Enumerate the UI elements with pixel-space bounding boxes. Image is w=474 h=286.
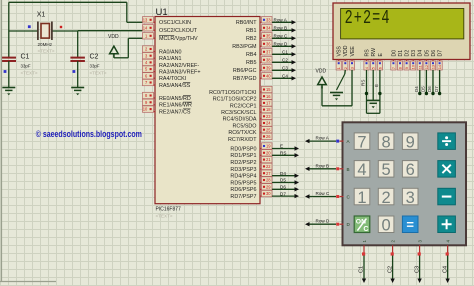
svg-text:RC3/SCK/SCL: RC3/SCK/SCL <box>221 110 256 116</box>
svg-text:2: 2 <box>382 189 391 207</box>
svg-text:RB6/PGC: RB6/PGC <box>233 68 257 74</box>
svg-text:RC7/RX/DT: RC7/RX/DT <box>228 137 257 143</box>
svg-text:D7: D7 <box>280 191 286 196</box>
svg-text:D0: D0 <box>391 50 397 57</box>
svg-text:3: 3 <box>350 67 355 69</box>
svg-text:C2: C2 <box>282 58 288 63</box>
svg-text:RB4: RB4 <box>246 52 257 58</box>
svg-text:RE2/AN7/CS: RE2/AN7/CS <box>159 110 191 116</box>
svg-text:D4: D4 <box>418 50 424 57</box>
svg-text:Row B: Row B <box>274 26 288 31</box>
svg-text:RD6/PSP6: RD6/PSP6 <box>230 187 256 193</box>
svg-text:C1: C1 <box>21 54 30 61</box>
svg-text:RS: RS <box>364 49 370 57</box>
svg-text:OSC1/CLKIN: OSC1/CLKIN <box>159 20 191 26</box>
svg-text:40: 40 <box>266 73 271 78</box>
svg-text:D2: D2 <box>405 50 411 57</box>
svg-text:RA3/AN3/VREF+: RA3/AN3/VREF+ <box>159 70 201 76</box>
svg-text:37: 37 <box>266 49 271 54</box>
svg-text:33pF: 33pF <box>90 64 100 69</box>
svg-text:9: 9 <box>404 67 409 69</box>
svg-text:26: 26 <box>266 134 271 139</box>
svg-text:<TEXT>: <TEXT> <box>38 49 55 54</box>
svg-text:RD2/PSP2: RD2/PSP2 <box>230 160 256 166</box>
svg-text:RD3/PSP3: RD3/PSP3 <box>230 167 256 173</box>
svg-text:5: 5 <box>382 161 391 179</box>
svg-text:2+2=4: 2+2=4 <box>345 8 391 30</box>
svg-text:RD1/PSP1: RD1/PSP1 <box>230 153 256 159</box>
svg-text:9: 9 <box>406 133 415 151</box>
svg-text:10: 10 <box>143 107 148 112</box>
svg-text:5: 5 <box>371 67 376 69</box>
svg-text:13: 13 <box>431 65 436 69</box>
svg-text:RC4/SDI/SDA: RC4/SDI/SDA <box>223 117 257 123</box>
svg-text:D7: D7 <box>434 86 439 92</box>
svg-text:18: 18 <box>266 107 271 112</box>
svg-text:E: E <box>374 84 379 87</box>
svg-text:0: 0 <box>382 217 391 235</box>
svg-text:RE1/AN6/WR: RE1/AN6/WR <box>159 103 192 109</box>
svg-text:7: 7 <box>391 67 396 69</box>
svg-text:23: 23 <box>266 114 271 119</box>
svg-text:RA5/AN4/SS: RA5/AN4/SS <box>159 83 191 89</box>
svg-text:RA0/AN0: RA0/AN0 <box>159 49 181 55</box>
svg-text:RB0/INT: RB0/INT <box>236 20 257 26</box>
svg-text:19: 19 <box>266 144 271 149</box>
svg-text:Row D: Row D <box>316 219 330 224</box>
svg-text:<TEXT>: <TEXT> <box>21 71 38 76</box>
svg-text:RB1: RB1 <box>246 28 257 34</box>
svg-text:30: 30 <box>266 191 271 196</box>
svg-text:OSC2/CLKOUT: OSC2/CLKOUT <box>159 28 198 34</box>
svg-text:RC2/CCP1: RC2/CCP1 <box>230 103 257 109</box>
svg-text:B: B <box>347 167 350 172</box>
svg-text:RA4/T0CKI: RA4/T0CKI <box>159 76 186 82</box>
svg-text:7: 7 <box>357 133 366 151</box>
svg-text:D1: D1 <box>398 50 404 57</box>
svg-text:RB3/PGM: RB3/PGM <box>232 44 257 50</box>
svg-text:Row A: Row A <box>274 18 288 23</box>
svg-text:14: 14 <box>143 25 148 30</box>
svg-text:RC0/T1OSO/T1CKI: RC0/T1OSO/T1CKI <box>209 90 256 96</box>
svg-text:=: = <box>406 217 414 232</box>
svg-text:<TEXT>: <TEXT> <box>156 214 173 219</box>
svg-text:RE0/AN5/RD: RE0/AN5/RD <box>159 96 191 102</box>
svg-text:2: 2 <box>343 67 348 69</box>
svg-text:Row B: Row B <box>316 163 330 168</box>
svg-text:34: 34 <box>266 25 271 30</box>
svg-text:C2: C2 <box>387 266 393 273</box>
svg-text:25: 25 <box>266 127 271 132</box>
svg-text:D4: D4 <box>280 171 286 176</box>
svg-text:15: 15 <box>266 87 271 92</box>
svg-text:MCLR/Vpp/THV: MCLR/Vpp/THV <box>159 36 198 42</box>
svg-text:D5: D5 <box>280 178 286 183</box>
svg-text:VDD: VDD <box>108 34 119 40</box>
svg-text:D4: D4 <box>414 86 419 92</box>
svg-text:39: 39 <box>266 65 271 70</box>
svg-text:RA1/AN1: RA1/AN1 <box>159 56 181 62</box>
svg-text:RB7/PGD: RB7/PGD <box>233 76 257 82</box>
svg-text:<TEXT>: <TEXT> <box>90 71 107 76</box>
svg-text:Row C: Row C <box>316 191 330 196</box>
svg-text:C3: C3 <box>282 66 288 71</box>
svg-text:D6: D6 <box>431 50 437 57</box>
svg-text:1: 1 <box>357 189 366 207</box>
svg-text:17: 17 <box>266 101 271 106</box>
svg-text:38: 38 <box>266 57 271 62</box>
svg-text:C4: C4 <box>442 266 448 273</box>
svg-text:RC5/SDO: RC5/SDO <box>233 123 257 129</box>
svg-text:RS: RS <box>280 151 286 156</box>
svg-text:RB5: RB5 <box>246 60 257 66</box>
svg-text:C: C <box>363 224 368 233</box>
svg-text:Row D: Row D <box>274 42 288 47</box>
svg-text:C3: C3 <box>414 266 420 273</box>
svg-text:U1: U1 <box>156 7 168 18</box>
svg-text:RD5/PSP5: RD5/PSP5 <box>230 180 256 186</box>
svg-text:VSS: VSS <box>337 46 343 57</box>
svg-text:11: 11 <box>417 65 422 69</box>
svg-text:29: 29 <box>266 184 271 189</box>
svg-text:20: 20 <box>266 150 271 155</box>
svg-text:33pF: 33pF <box>21 64 31 69</box>
svg-text:33: 33 <box>266 17 271 22</box>
svg-text:PIC16F877: PIC16F877 <box>156 207 182 213</box>
svg-text:1: 1 <box>336 67 341 69</box>
svg-text:RW: RW <box>371 48 377 57</box>
svg-text:RD0/PSP0: RD0/PSP0 <box>230 146 256 152</box>
svg-text:© saeedsolutions.blogspot.com: © saeedsolutions.blogspot.com <box>36 128 142 139</box>
svg-text:VEE: VEE <box>350 46 356 57</box>
svg-text:21: 21 <box>266 157 271 162</box>
svg-text:Row A: Row A <box>316 136 330 141</box>
svg-text:RA2/AN2/VREF-: RA2/AN2/VREF- <box>159 63 199 69</box>
svg-text:24: 24 <box>266 121 271 126</box>
svg-text:27: 27 <box>266 171 271 176</box>
svg-text:6: 6 <box>377 67 382 69</box>
svg-text:C1: C1 <box>282 50 288 55</box>
svg-text:22: 22 <box>266 164 271 169</box>
svg-text:RD4/PSP4: RD4/PSP4 <box>230 174 256 180</box>
svg-text:E: E <box>280 144 283 149</box>
svg-text:36: 36 <box>266 41 271 46</box>
svg-text:D6: D6 <box>427 86 432 92</box>
svg-text:RC1/T1OSI/CCP2: RC1/T1OSI/CCP2 <box>213 97 257 103</box>
svg-text:12: 12 <box>424 65 429 69</box>
svg-text:E: E <box>378 53 384 57</box>
svg-text:D6: D6 <box>280 185 286 190</box>
svg-text:8: 8 <box>398 67 403 69</box>
svg-text:D3: D3 <box>411 50 417 57</box>
svg-text:4: 4 <box>357 161 366 179</box>
svg-text:VDD: VDD <box>343 45 349 56</box>
svg-text:C2: C2 <box>90 54 99 61</box>
svg-text:C1: C1 <box>359 266 365 273</box>
svg-text:8: 8 <box>382 133 391 151</box>
svg-text:RD7/PSP7: RD7/PSP7 <box>230 194 256 200</box>
svg-text:16: 16 <box>266 94 271 99</box>
svg-text:D5: D5 <box>424 50 430 57</box>
svg-text:D7: D7 <box>438 50 444 57</box>
svg-text:RS: RS <box>360 80 365 86</box>
svg-text:20MHz: 20MHz <box>38 42 53 47</box>
svg-text:VDD: VDD <box>316 69 327 75</box>
svg-text:3: 3 <box>406 189 415 207</box>
svg-text:RC6/TX/CK: RC6/TX/CK <box>228 130 257 136</box>
svg-text:6: 6 <box>406 161 415 179</box>
svg-text:35: 35 <box>266 33 271 38</box>
svg-text:28: 28 <box>266 178 271 183</box>
svg-text:Row C: Row C <box>274 34 288 39</box>
svg-text:X1: X1 <box>37 12 46 19</box>
svg-text:13: 13 <box>143 17 148 22</box>
svg-text:RB2: RB2 <box>246 36 257 42</box>
svg-text:C4: C4 <box>282 74 288 79</box>
svg-text:D5: D5 <box>421 86 426 92</box>
